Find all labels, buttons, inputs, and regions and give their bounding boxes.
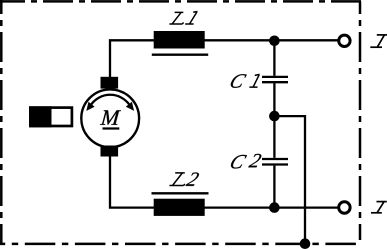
wire midpoint branch to shield: [274, 116, 305, 244]
motor label M: [100, 110, 121, 124]
label L2: [169, 173, 185, 186]
shield enclosure border bottom: [0, 243, 362, 246]
motor top brush: [101, 77, 119, 89]
rotation arrow right head: [126, 102, 134, 111]
shield enclosure border top: [0, 0, 361, 3]
label L1: [169, 12, 183, 24]
junction node mid (C1 / C2): [269, 111, 280, 122]
wire L2 to bottom terminal: [204, 206, 338, 208]
stator permanent magnet: [30, 108, 72, 126]
motor label underline: [103, 127, 120, 129]
inductor L1: [154, 31, 205, 49]
terminal label 1 (top): [370, 35, 387, 47]
inductor L2: [154, 199, 205, 216]
wire L1 to top terminal: [204, 39, 338, 41]
wire C1 to mid node and mid node to C2: [273, 83, 275, 158]
L2 core line: [152, 192, 209, 194]
capacitor C1: [262, 76, 288, 78]
label C1: [231, 74, 247, 88]
motor M body: [81, 89, 139, 147]
motor bottom brush: [101, 146, 119, 157]
junction node bottom (L2 / C2): [269, 202, 280, 213]
shield enclosure border right: [359, 1, 362, 240]
junction node top (L1 / C1): [269, 36, 280, 47]
L1 core line: [152, 54, 208, 56]
motor rotation arrow arc: [91, 95, 129, 105]
terminal 2 (bottom output): [339, 202, 350, 213]
wire C2 to bottom node: [273, 166, 275, 208]
junction node on shield: [300, 238, 311, 249]
wire top node to C1: [273, 40, 275, 76]
label C2: [231, 155, 247, 169]
wire motor top brush to L1: [110, 40, 155, 78]
wire motor bottom brush to L2: [110, 156, 155, 208]
rotation arrow left head: [86, 102, 94, 111]
terminal 1 (top output): [339, 35, 350, 46]
capacitor C2: [262, 158, 288, 160]
shield enclosure border left: [0, 0, 3, 244]
stator magnet black half: [29, 106, 51, 127]
terminal label 2 (bottom): [371, 202, 387, 213]
